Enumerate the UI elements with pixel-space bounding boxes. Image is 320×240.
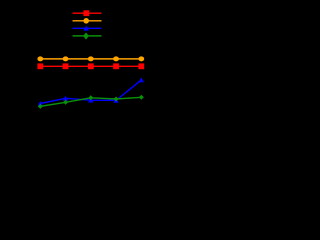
orange series line: [40, 58, 141, 60]
legend row 3: blue line + triangle: [73, 27, 102, 29]
red square markers: [37, 63, 144, 69]
orange circle markers: [37, 56, 144, 61]
red series line: [40, 65, 141, 67]
blue triangle markers: [38, 77, 144, 105]
legend row 2: orange line + circle: [73, 20, 102, 22]
green series line: [40, 97, 141, 106]
legend row 1: red line + square: [73, 12, 102, 14]
blue series line: [40, 80, 141, 104]
legend row 4: green line + diamond: [73, 35, 102, 37]
green diamond markers: [38, 95, 144, 109]
